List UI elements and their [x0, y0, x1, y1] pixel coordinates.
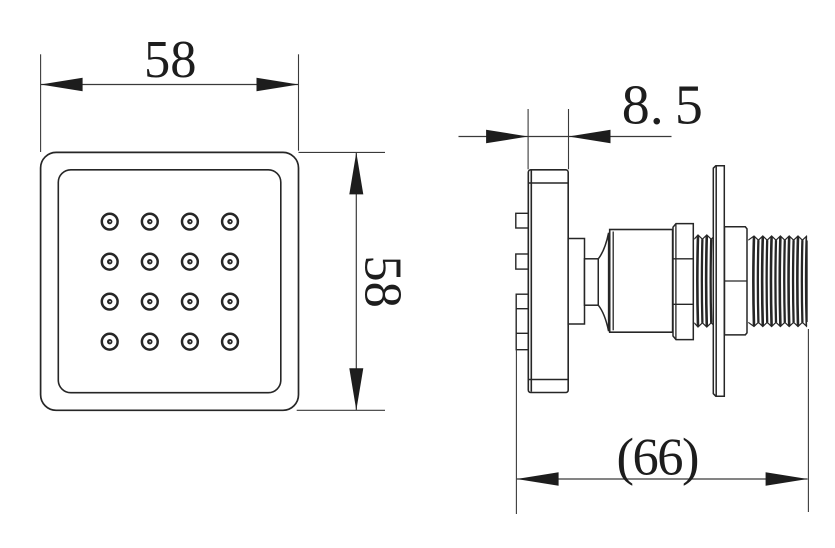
right thread crest 4 [780, 237, 785, 327]
dim66 left arrowhead pointing left [517, 472, 559, 486]
nozzle jet r3c4 [222, 294, 238, 310]
right thread crest 8 [815, 237, 820, 327]
side view stem end face [597, 259, 599, 305]
front view outer rounded square body [41, 152, 299, 410]
side view bell cone [598, 233, 608, 331]
dim58right bottom arrowhead [349, 368, 363, 410]
side view wall escutcheon plate [713, 166, 724, 397]
dim58right top arrowhead [349, 152, 363, 194]
side view nozzle tab row2 [516, 254, 529, 269]
left threads [694, 235, 720, 327]
dim8.5 left extension line [527, 109, 529, 169]
dim8.5 dimension line [459, 136, 672, 138]
dim8.5 right arrowhead pointing left [569, 130, 611, 144]
nozzle jet r2c2 [142, 254, 158, 270]
dim58right dimension line [355, 152, 357, 410]
dim58top dimension line [41, 84, 299, 86]
front view inner rounded square face [58, 170, 280, 393]
left thread crest 1 [697, 236, 702, 327]
nozzle jet r1c2 [142, 214, 158, 230]
left thread crest 2 [706, 236, 711, 327]
dim58right top extension line [299, 151, 386, 153]
right thread crest 5 [789, 237, 794, 327]
dim8.5 left arrowhead pointing right [486, 130, 528, 144]
left thread bottom edge [694, 323, 720, 327]
right thread crest 7 [806, 237, 811, 327]
nozzle jet r3c2 [142, 294, 158, 310]
svg-text:58: 58 [144, 31, 197, 89]
dim58top right arrowhead [257, 78, 299, 92]
right thread top edge [748, 236, 820, 240]
nozzle jet r1c4 [222, 214, 238, 230]
nozzle jet r2c1 [102, 254, 118, 270]
dim58top left arrowhead [41, 78, 83, 92]
right thread crest 2 [762, 237, 767, 327]
svg-text:58: 58 [353, 255, 411, 308]
dim66 dimension line [517, 478, 808, 480]
side view body cylinder [610, 230, 673, 333]
right thread crest 3 [771, 237, 776, 327]
dim66 right extension line [807, 329, 809, 512]
nozzle jet r4c2 [142, 334, 158, 350]
nozzle jet r4c4 [222, 334, 238, 350]
dim58top right extension line [298, 54, 300, 150]
svg-text:(66): (66) [617, 429, 700, 487]
side view stem flange [568, 239, 584, 325]
nozzle jet r1c3 [182, 214, 198, 230]
thread pipe right end edge [806, 241, 808, 323]
right threads [748, 236, 820, 327]
dim58right bottom extension line [297, 409, 385, 411]
nozzle jet r4c3 [182, 334, 198, 350]
dim58top left extension line [40, 54, 42, 152]
nozzle jet r2c3 [182, 254, 198, 270]
svg-text:8. 5: 8. 5 [622, 74, 703, 136]
left thread top edge [694, 235, 720, 239]
nozzle jet r3c3 [182, 294, 198, 310]
dim8.5 right extension line [568, 109, 570, 169]
nozzle jet r2c4 [222, 254, 238, 270]
right thread crest 1 [753, 237, 758, 327]
side view mounting plate [528, 170, 568, 393]
left thread crest 3 [715, 236, 720, 327]
side view stem neck [585, 259, 599, 305]
dim66 left extension line [515, 350, 517, 514]
right thread bottom edge [748, 322, 820, 326]
nozzle jet r1c1 [102, 214, 118, 230]
dim66 right arrowhead pointing right [766, 472, 808, 486]
nozzle jet r3c1 [102, 294, 118, 310]
side view nozzle tab row1 [516, 213, 529, 228]
right thread crest 6 [797, 237, 802, 327]
side view hex nut [673, 224, 693, 340]
side view nozzle tab block rows3-4 [516, 294, 528, 350]
nozzle jet r4c1 [102, 334, 118, 350]
side view collar [725, 227, 748, 335]
